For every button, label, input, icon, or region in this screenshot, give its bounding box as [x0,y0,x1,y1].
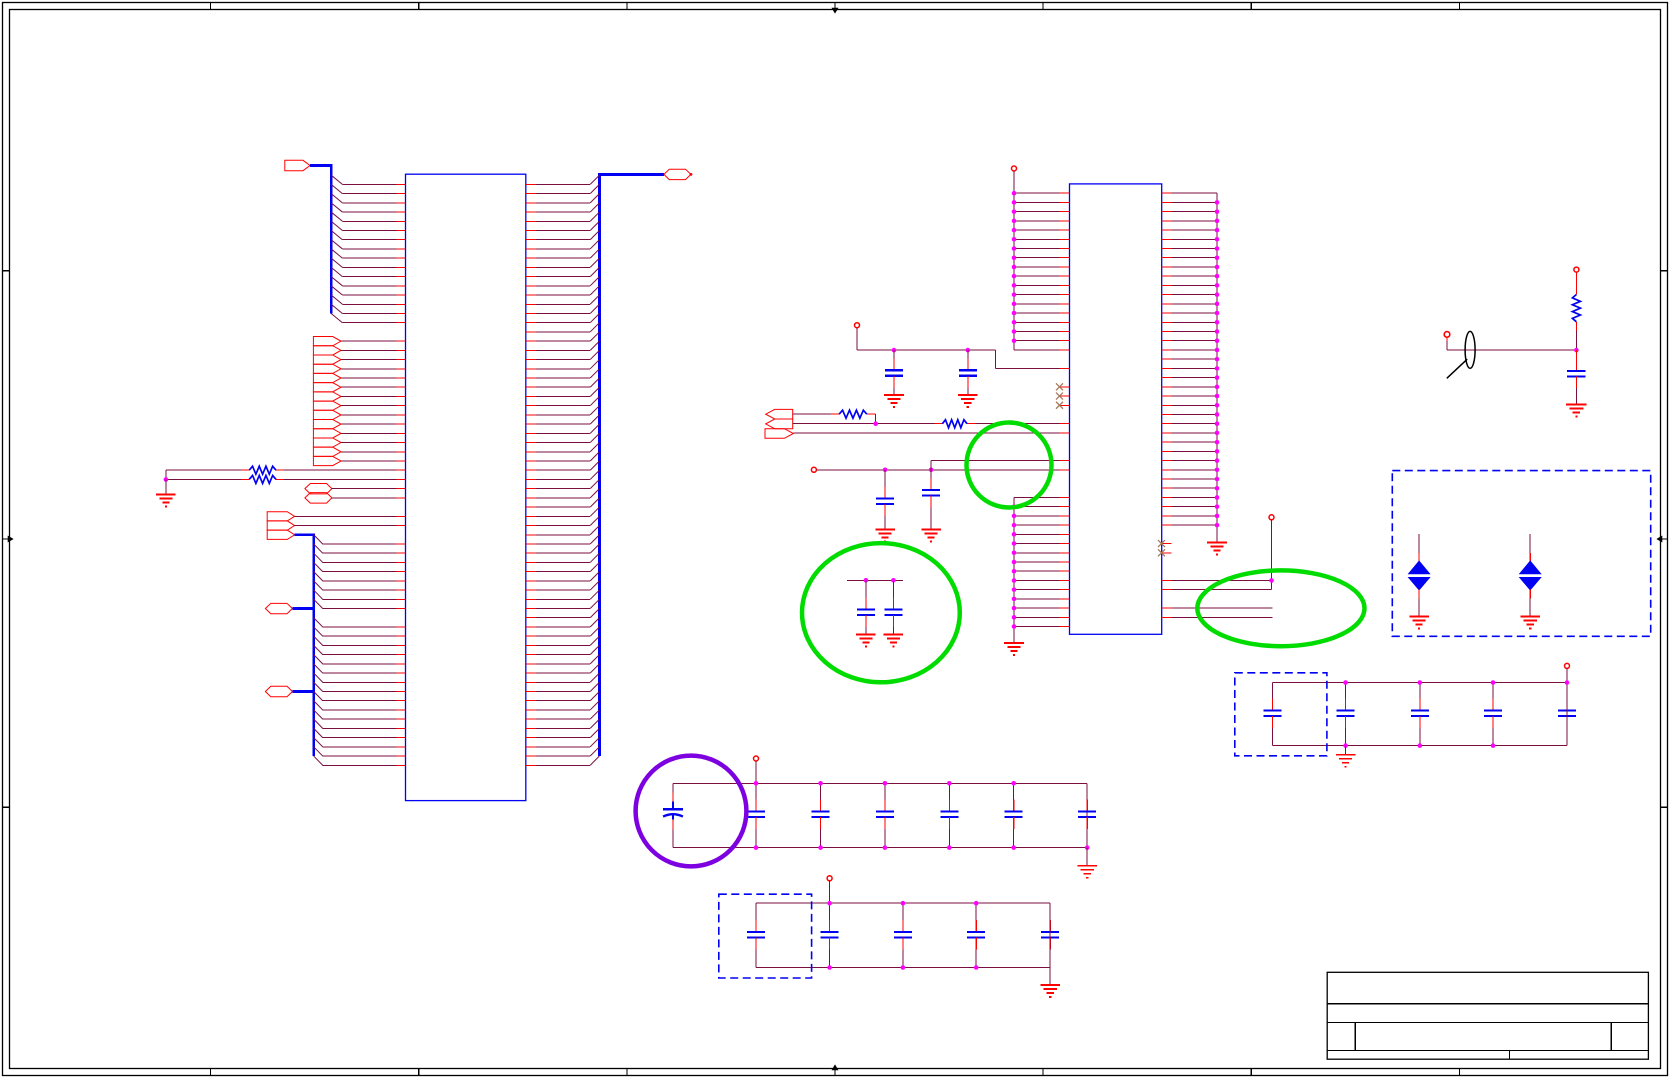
power pin P6 [754,756,759,761]
capacitor C6 ground [884,635,904,647]
capacitor C22 [1484,683,1502,746]
IC U1 body [406,174,526,800]
rail RR1 (U2 right) [1216,193,1218,542]
U2 left pin wires group 1 [1014,193,1070,350]
wire to R1 [166,470,406,479]
ground GND1 [156,495,176,507]
highlight circle G1 [967,423,1052,508]
wire node W1 [847,579,903,581]
capacitor C17 [967,903,985,967]
junction T18/T19 [873,421,878,426]
wire H2 to U1 [332,497,406,499]
TVS dashed box [1392,471,1650,637]
wire T16 to U1 [295,525,406,527]
capacitor C20 [1337,683,1355,746]
capacitor C10 [876,783,894,847]
capacitor C6 [884,580,902,634]
IC U2 body [1070,184,1162,634]
capacitor C19 [1263,683,1281,746]
junction C3 [883,468,888,473]
resistor R3 [839,410,867,418]
wire R5 to node [1575,322,1577,350]
U1 left pin wires group 2 (tag fan) [341,341,406,461]
wire to R2 [166,478,406,480]
power pin P8 [1565,663,1570,668]
capacitor C9 [812,783,830,847]
capacitor C24 [1567,350,1585,405]
resistor R5 [1572,295,1580,322]
capacitor C8 [747,783,765,847]
bank2 top rail [756,902,1050,904]
junction C2 [966,348,971,353]
connector tag fan T1-T14 [313,337,341,466]
ground GND5 [1040,985,1060,997]
title block [1327,972,1648,1059]
bus entry tag P1 [285,160,310,170]
junction C1 [892,348,897,353]
highlight circle G3 [1197,570,1364,646]
bank1 ground stub [1086,848,1088,866]
wire H3 to bus B2 [292,607,313,610]
no-connect pins U2 right [1158,540,1172,556]
U1 left pin wires group 1 (bus B1 fan) [331,175,405,323]
bank2 right end wire [1049,903,1051,967]
U2 pin wire 43 [1162,589,1272,591]
U2 pin wire 42 [1162,579,1272,581]
U1 right pin wires (bus B3 fan) [526,175,600,765]
TVS diode D2 [1520,534,1540,617]
power pin P9 [1574,267,1579,272]
wire P8 to rail [1566,669,1568,683]
U2 pin wire 46 (stub) [1162,616,1273,618]
wire P4 to U2 [817,469,1070,471]
highlight circle (purple) [636,756,747,867]
rail RL2 (U2 lower-left) [1013,497,1015,643]
TVS diode D2 ground [1520,617,1540,629]
capacitor C15 [821,903,839,967]
power pin P5 [1269,515,1274,520]
U2 pin wire 45 (stub) [1162,607,1273,609]
wire P10 to node [1447,337,1576,350]
wire P9 to R5 [1575,272,1577,294]
junction P5 [1269,578,1274,583]
tag group T15-T17 [267,512,294,540]
bidir tag H1 [305,483,332,493]
wire P7 to rail [829,881,831,903]
wire T19 through R4 to U2 [793,423,1070,425]
bidir tag H3 into bus B2 [265,603,292,613]
capacitor C7 (polarized) [663,783,683,847]
bus B3 (right of U1) [598,174,664,756]
tag group T18-T20 [765,409,793,438]
power pin P3 [855,323,860,328]
capacitor C16 [894,903,912,967]
wire branch to pin29 [931,461,1069,470]
U1 left pin wires group 3 (bus B2 fan) [314,535,406,766]
bank3 ground stub [1345,746,1347,755]
bank3 junction dots [1343,680,1569,748]
bank2 ground stub [1049,968,1051,985]
ground GND4 [1077,866,1097,878]
U2 right pin wires group 1 [1162,193,1217,525]
wire T20 to U2 [793,432,1069,434]
resistor R1 [249,466,276,474]
rail RL1 (U2 upper-left) [1013,171,1015,350]
wire H1 to U1 [332,488,406,490]
bank2 bottom rail [756,967,1050,969]
power pin P7 [827,876,832,881]
capacitor C23 [1558,683,1576,746]
capacitor C5 [857,580,875,634]
junction at R ground [164,477,169,482]
capacitor C2 ground [958,395,978,407]
wire T15 to U1 [295,515,406,517]
ferrite bead FB1 [1447,331,1475,378]
junction C4 [929,468,934,473]
power pin P10 [1444,332,1450,338]
capacitor C21 [1411,683,1429,746]
capacitor C2 [959,350,977,395]
ground GND6 [1336,755,1356,767]
highlight circle G2 [802,543,960,682]
junction node N1 [1574,348,1579,353]
bus B2 (lower-left of U1) [295,533,314,756]
bank1 right end wire [1086,783,1088,847]
junction dots rail RL1 [1012,191,1017,343]
capacitor C5 ground [856,635,876,647]
junction C6 [891,578,896,583]
capacitor C3 [876,470,894,530]
bidir tag H4 into bus B2 [265,686,292,696]
ground GND3 [1207,543,1227,555]
bank1 bottom rail [673,847,1087,849]
wire P3 rail [857,328,1070,369]
ground GND7 [1566,405,1587,417]
capacitor C11 [940,783,958,847]
ground GND2 [1004,643,1024,655]
junction C5 [864,578,869,583]
capacitor C12 [1005,783,1023,847]
junction dots rail RL2 [1012,504,1017,628]
junction dots rail RR1 [1215,200,1220,527]
bank2 dashed box [719,894,812,978]
TVS diode D1 ground [1409,617,1429,629]
resistor R4 [942,420,967,428]
bank1 junction dots [754,781,1090,850]
wire H4 to bus B2 [292,690,313,693]
capacitor C3 ground [875,529,895,541]
capacitor C18 [1041,903,1059,967]
capacitor C4 ground [921,529,941,541]
capacitor C1 ground [884,395,904,407]
no-connect pins U2 left [1056,383,1070,408]
bank2 junction dots [827,901,978,970]
power pin P2 [1012,166,1017,171]
capacitor C4 [922,461,940,530]
bank3 top rail [1272,682,1567,684]
power pin P4 [811,467,816,472]
wire T18 to R3 [793,414,876,424]
bank1 top rail [673,782,1087,784]
bank3 dashed box [1235,673,1327,756]
capacitor C13 [1078,783,1096,847]
wire P6 to rail [755,761,757,783]
TVS diode D1 [1409,534,1429,617]
bank3 bottom rail [1272,745,1567,747]
capacitor C14 [747,903,765,967]
bus B1 (top-left of U1) [310,164,331,314]
bank3 right end wire [1566,683,1568,746]
U2 left pin wires group 2 [1014,497,1070,626]
wire P5 down [1271,520,1273,590]
capacitor C1 [885,350,903,395]
bidir tag H5 [664,169,691,179]
resistor R2 [249,475,276,483]
wire to ground [165,479,167,494]
bidir tag H2 [305,493,332,503]
